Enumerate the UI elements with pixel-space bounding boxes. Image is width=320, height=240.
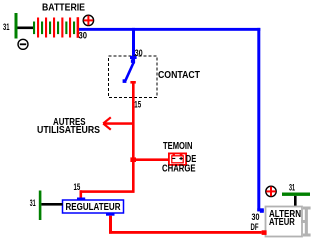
terminal tick blue contact	[130, 56, 137, 59]
contact box	[109, 56, 158, 98]
terminal tick regulator bottom	[106, 213, 115, 216]
wire red regulator to alternator DF	[109, 216, 262, 234]
svg-text:BATTERIE: BATTERIE	[42, 2, 85, 13]
alternator box	[266, 207, 303, 237]
svg-text:CONTACT: CONTACT	[158, 70, 201, 81]
wire red to lamp	[134, 158, 168, 161]
wire black regulator ground	[41, 203, 62, 206]
wire blue into switch	[132, 56, 135, 64]
wire red 15 vertical	[132, 83, 135, 193]
battery minus symbol	[18, 39, 28, 49]
svg-text:15: 15	[134, 100, 141, 110]
wire black alternator ground	[294, 196, 297, 207]
svg-text:30: 30	[79, 30, 88, 40]
svg-text:15: 15	[74, 182, 81, 192]
arrow autres utilisateurs	[103, 117, 133, 129]
wire blue main horizontal	[79, 28, 260, 31]
terminal tick red DF	[262, 230, 267, 235]
svg-text:ATEUR: ATEUR	[269, 217, 295, 228]
ground 31 regulator	[39, 191, 42, 221]
wire battery negative	[18, 27, 34, 30]
plus symbol alternator	[266, 186, 276, 196]
svg-text:UTILISATEURS: UTILISATEURS	[37, 125, 100, 136]
battery B1 cells	[33, 17, 79, 38]
svg-text:CHARGE: CHARGE	[162, 163, 196, 174]
battery plus symbol	[83, 15, 93, 25]
svg-text:31: 31	[30, 198, 36, 208]
svg-text:31: 31	[3, 22, 10, 32]
junction node	[130, 157, 136, 162]
svg-text:31: 31	[289, 182, 295, 192]
terminal tick blue 30 alternator	[260, 210, 264, 213]
switch blade Q	[123, 59, 135, 83]
contact 15 terminal cap	[130, 81, 135, 84]
ground 31 alternator	[282, 193, 310, 196]
charge lamp H1	[169, 153, 186, 165]
svg-text:DF: DF	[251, 222, 259, 232]
wire blue branch to contact	[132, 28, 135, 57]
wire blue right vertical	[257, 28, 264, 211]
svg-text:TEMOIN: TEMOIN	[163, 141, 193, 152]
ground 31 battery	[15, 13, 18, 39]
terminal tick regulator top	[77, 198, 85, 201]
svg-text:30: 30	[252, 212, 260, 222]
svg-text:REGULATEUR: REGULATEUR	[66, 202, 121, 213]
wire red contact to regulator	[80, 190, 135, 197]
regulator box	[63, 200, 124, 213]
alternator stator bar	[301, 207, 311, 237]
